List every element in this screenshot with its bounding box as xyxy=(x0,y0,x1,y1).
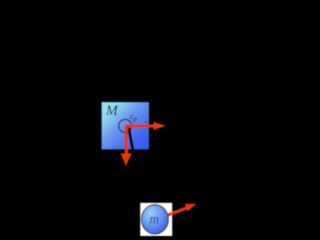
velocity arrow of ball m xyxy=(156,204,197,221)
svg-text:M: M xyxy=(105,103,119,119)
pendulum rod xyxy=(128,126,133,150)
svg-text:m: m xyxy=(150,211,160,226)
svg-text:p: p xyxy=(133,116,138,123)
cart M (blue box) xyxy=(102,102,149,149)
force arrow down (on pivot) xyxy=(121,124,132,166)
pivot arc circle xyxy=(119,119,132,132)
white sprite background of ball xyxy=(140,203,172,236)
ball m xyxy=(141,205,168,234)
force arrow right (on pivot) xyxy=(125,122,166,130)
